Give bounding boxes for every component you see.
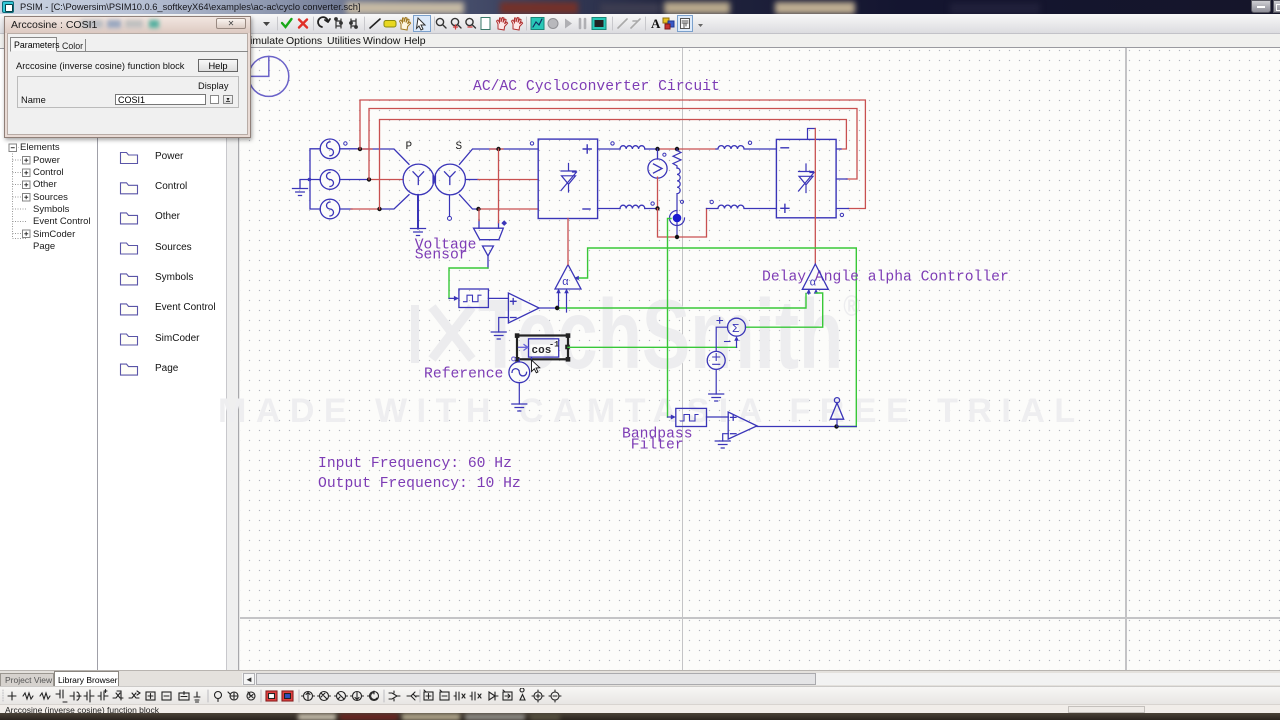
filter block F2 xyxy=(676,408,707,426)
ground left xyxy=(293,189,308,196)
wire phase A red stub xyxy=(358,148,372,150)
wire block2 right stubs xyxy=(836,149,848,209)
svg-text:Σ: Σ xyxy=(732,322,739,336)
AC source VSC xyxy=(320,199,340,219)
comparator U2 xyxy=(728,412,757,439)
polarity dot marker xyxy=(344,142,347,145)
label minus xyxy=(725,341,731,343)
marker o block2 out xyxy=(840,213,843,216)
ground P xyxy=(411,229,426,236)
node phase junction dot xyxy=(308,178,312,182)
svg-text:AC/AC Cycloconverter Circuit: AC/AC Cycloconverter Circuit xyxy=(473,79,720,95)
comparator U1 xyxy=(508,293,539,323)
clock symbol xyxy=(249,56,289,96)
page boundary lines xyxy=(682,48,683,670)
svg-text:Sensor: Sensor xyxy=(415,247,468,263)
wire sensor input left red xyxy=(478,209,480,221)
wire arrow into F2 xyxy=(668,416,671,418)
junction red return xyxy=(675,235,679,239)
wire sensor input right xyxy=(498,222,500,228)
red feedback bus 2 xyxy=(369,109,857,180)
wire arrows into alpha1 bottom xyxy=(559,291,567,313)
wire phase A xyxy=(340,149,409,165)
marker o L3 xyxy=(748,141,751,144)
wire dc bottom left xyxy=(598,208,658,210)
wire left phase bus xyxy=(300,149,320,209)
svg-text:P: P xyxy=(406,141,413,153)
svg-text:Input Frequency: 60 Hz: Input Frequency: 60 Hz xyxy=(318,456,512,472)
thyristor symbol block2 xyxy=(799,164,815,193)
red feedback bus 3 xyxy=(380,120,847,210)
inductor L2 xyxy=(620,205,645,208)
wire S out bottom xyxy=(460,195,479,209)
wire arrows into alpha2 bottom xyxy=(809,291,816,294)
h scrollbar xyxy=(242,673,1280,685)
thyristor bridge block2 xyxy=(776,139,836,217)
buffer T1 xyxy=(830,398,843,427)
filter block F1 xyxy=(459,289,489,308)
mouse cursor xyxy=(532,360,540,373)
marker o input block1 xyxy=(530,142,533,145)
group box xyxy=(17,76,239,108)
svg-text:α: α xyxy=(810,278,817,290)
wire sensor green xyxy=(449,268,488,298)
red feedback bus 1 xyxy=(360,100,865,209)
label plus xyxy=(717,318,723,324)
thyristor bridge block1 xyxy=(538,139,597,218)
wire green alpha1 feed xyxy=(557,294,806,309)
svg-text:Delay Angle alpha Controller: Delay Angle alpha Controller xyxy=(762,270,1009,286)
terminal circle S neutral xyxy=(448,216,452,220)
wire F1 to comparator xyxy=(488,297,508,299)
ground dc xyxy=(709,394,724,401)
marker o reference xyxy=(512,357,516,361)
wire sensor input left xyxy=(478,220,480,229)
junction S bottom xyxy=(476,207,480,211)
wire top red to right xyxy=(658,148,717,150)
wire F2 to comparator2 xyxy=(707,416,729,418)
marker o L4 xyxy=(710,200,713,203)
marker diamond xyxy=(501,220,507,226)
wire phase C xyxy=(340,195,409,209)
wire comparator minus to ground xyxy=(499,318,509,333)
wire L1 to junctions xyxy=(645,148,658,150)
AC source VSA xyxy=(320,139,340,159)
junction comparator out xyxy=(555,306,559,310)
transformer P winding xyxy=(403,164,434,195)
cos block selection frame xyxy=(517,336,568,360)
wire red return xyxy=(658,209,707,238)
marker o xyxy=(611,142,614,145)
junction A xyxy=(358,147,362,151)
junction dc bottom xyxy=(655,206,659,210)
svg-text:A: A xyxy=(651,16,661,31)
wire red gate1 xyxy=(567,219,569,265)
wire green node to F2 xyxy=(668,219,672,418)
inductor L1 xyxy=(620,146,645,149)
svg-text:Filter: Filter xyxy=(631,437,684,453)
junction B xyxy=(367,177,371,181)
wire arrow into F1 xyxy=(449,297,457,299)
alpha controller A1 xyxy=(555,265,581,289)
wire comparator2 output xyxy=(757,426,856,428)
arccosine block COSI1 xyxy=(529,339,559,360)
wire S out top xyxy=(460,149,539,164)
transformer S winding xyxy=(435,164,466,195)
junction dc top 2 xyxy=(675,147,679,151)
gate notch block2 xyxy=(808,129,816,140)
svg-text:α: α xyxy=(562,277,569,289)
wire phase B xyxy=(340,179,369,181)
ground reference xyxy=(512,404,527,411)
reference sine source xyxy=(509,359,530,382)
wire phase B red to P xyxy=(369,179,403,181)
wire green cos output xyxy=(568,346,737,348)
wire phase C red segment xyxy=(351,208,380,210)
inductor L3 xyxy=(716,146,776,149)
wire S out mid red xyxy=(478,179,538,181)
wire sensor input right red xyxy=(498,149,500,223)
wire comparator output xyxy=(539,307,557,309)
wire S out bottom red xyxy=(478,208,538,210)
marker o load xyxy=(680,200,683,203)
wire S neutral xyxy=(449,195,451,217)
voltmeter V1 xyxy=(648,149,667,178)
inductor L load xyxy=(677,168,680,214)
summer S1 xyxy=(728,318,746,336)
arrow into alpha1 right xyxy=(574,276,579,281)
voltage sensor VS1 xyxy=(474,228,504,268)
junction output xyxy=(834,424,838,428)
wire sigma bottom input xyxy=(736,341,738,347)
wire P neutral to ground xyxy=(417,195,419,229)
inductor L4 xyxy=(707,205,777,208)
tabs xyxy=(10,37,57,52)
ground comparator xyxy=(491,332,506,339)
ground comparator2 xyxy=(715,441,730,448)
wire dc to ground xyxy=(715,369,717,394)
wire reference to ground xyxy=(518,383,520,404)
wire arrow into cos block xyxy=(519,345,528,351)
svg-text:S: S xyxy=(456,141,463,153)
svg-text:Output Frequency: 10 Hz: Output Frequency: 10 Hz xyxy=(318,476,521,492)
wire gate red through block2 xyxy=(814,129,816,265)
wire dc to sigma xyxy=(716,327,727,351)
svg-text:-1: -1 xyxy=(549,340,559,350)
wire voltmeter bottom red xyxy=(657,177,659,208)
node marker arc xyxy=(670,211,685,226)
junction S top xyxy=(496,147,500,151)
wire comparator2 minus ground xyxy=(723,434,729,441)
junction C xyxy=(377,207,381,211)
wire DC+ top xyxy=(598,148,620,150)
wire S out top red segment xyxy=(490,148,503,150)
svg-text:Reference: Reference xyxy=(424,367,503,383)
AC source VSB xyxy=(320,170,340,190)
marker o voltmeter xyxy=(663,153,666,156)
transformer coupling ticks xyxy=(433,176,436,184)
resistor R load xyxy=(673,149,681,168)
wire green loop main xyxy=(576,248,856,427)
node marker blue dot xyxy=(673,214,682,223)
wire S out mid xyxy=(465,179,478,181)
alpha controller A2 xyxy=(802,264,828,289)
marker o xyxy=(651,202,654,205)
watermarks xyxy=(478,285,860,383)
wire green sigma to alpha2 xyxy=(746,293,823,327)
junction dc top 1 xyxy=(655,147,659,151)
thyristor symbol block1 xyxy=(561,164,577,193)
junction comparator out redraw xyxy=(555,306,559,310)
wire node down xyxy=(676,223,678,237)
dc source VDC xyxy=(707,351,725,369)
